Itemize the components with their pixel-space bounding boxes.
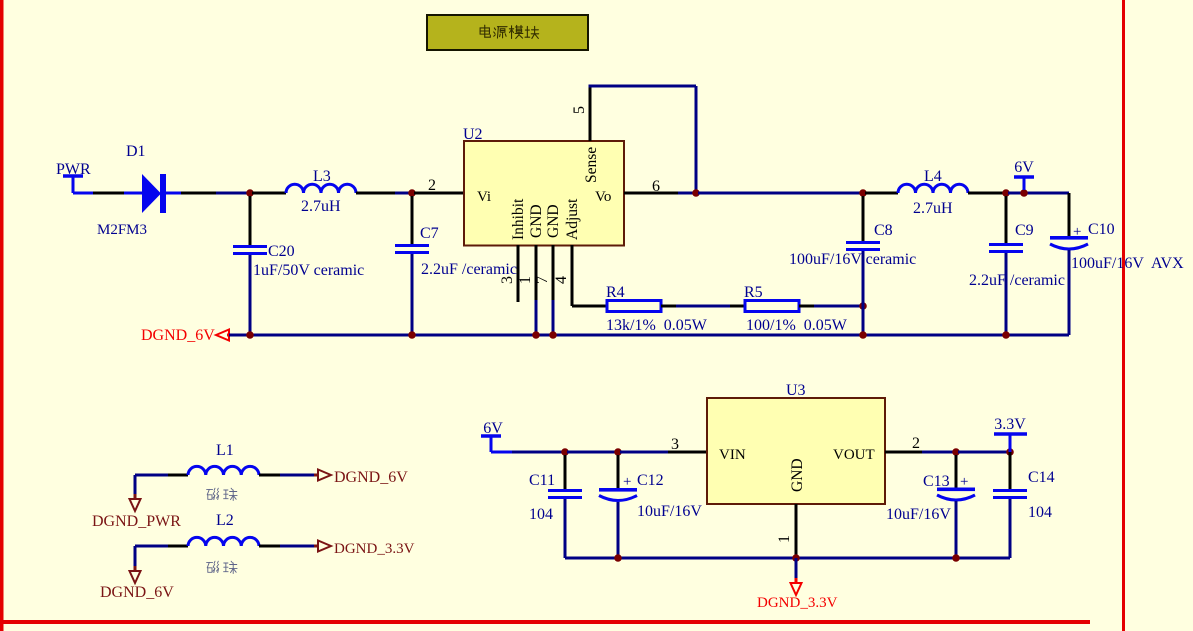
capacitor C10 polarized <box>1068 193 1071 237</box>
svg-text:5: 5 <box>571 106 588 114</box>
wire 6V to U3 VIN pin 3 <box>491 451 512 454</box>
svg-text:C10: C10 <box>1088 221 1115 238</box>
junction C13 gnd <box>952 554 960 562</box>
capacitor C13 polarized <box>955 455 958 488</box>
L2 value 磁珠 <box>207 561 219 572</box>
sheet border left red stripe <box>0 0 4 631</box>
inductor L4 <box>898 184 968 193</box>
power symbol DGND_6V bottom left <box>130 571 141 583</box>
sheet border bottom red line <box>0 620 1090 624</box>
wire L1 to DGND_PWR <box>134 475 137 494</box>
svg-text:6V: 6V <box>1014 159 1034 176</box>
svg-text:D1: D1 <box>126 143 146 160</box>
op-amp U2 regulator body <box>464 141 624 246</box>
svg-text:2.2uF /ceramic: 2.2uF /ceramic <box>421 261 517 278</box>
svg-text:Vo: Vo <box>595 189 611 205</box>
svg-text:6V: 6V <box>483 420 503 437</box>
wire L2 to DGND_6V <box>134 546 137 566</box>
junction C8 gnd <box>859 331 867 339</box>
node E junction <box>859 302 867 310</box>
svg-text:DGND_3.3V: DGND_3.3V <box>757 595 838 611</box>
svg-text:+: + <box>960 474 968 490</box>
svg-text:Sense: Sense <box>583 147 600 183</box>
U2 Vo pin 6 wire <box>624 192 678 195</box>
capacitor C20 <box>249 196 252 245</box>
wire node D to L4 <box>865 192 898 195</box>
port 6V for U3 <box>481 434 501 438</box>
svg-text:DGND_PWR: DGND_PWR <box>92 513 181 530</box>
capacitor C11 <box>564 455 567 489</box>
resistor R4 <box>607 301 661 312</box>
svg-text:R4: R4 <box>606 284 625 301</box>
power symbol DGND_PWR <box>130 499 141 511</box>
power symbol DGND_3.3V right of L2 <box>318 541 331 552</box>
svg-text:L2: L2 <box>216 512 234 529</box>
svg-text:L3: L3 <box>313 168 331 185</box>
svg-text:DGND_6V: DGND_6V <box>141 327 215 344</box>
power symbol DGND_6V right of L1 <box>318 470 331 481</box>
port PWR <box>63 174 83 178</box>
U2 pin 7 GND wire <box>552 245 555 300</box>
U3 VOUT pin 2 wire <box>885 451 922 454</box>
svg-text:C14: C14 <box>1028 469 1055 486</box>
svg-text:U2: U2 <box>463 126 483 143</box>
U3 ground rail wire <box>565 557 1010 560</box>
svg-text:DGND_6V: DGND_6V <box>334 469 408 486</box>
U3 GND pin 1 wire <box>795 504 798 558</box>
node K junction 3.3V/C14 <box>1006 448 1014 456</box>
wire R5 to node E <box>799 305 814 308</box>
svg-text:L4: L4 <box>924 168 942 185</box>
capacitor C14 <box>1009 452 1012 489</box>
svg-text:C9: C9 <box>1015 222 1034 239</box>
node F junction C9 <box>1002 189 1010 197</box>
svg-text:100uF/16V AVX: 100uF/16V AVX <box>1071 255 1184 272</box>
U2 pin 1 GND wire <box>535 245 538 300</box>
junction U3 gnd <box>792 554 800 562</box>
svg-text:4: 4 <box>553 276 570 284</box>
junction U2 gnd7 <box>549 331 557 339</box>
wire PWR to D1 <box>73 192 93 195</box>
svg-text:104: 104 <box>1028 504 1052 521</box>
node G junction 6V <box>1020 189 1028 197</box>
svg-text:100/1% 0.05W: 100/1% 0.05W <box>746 317 848 334</box>
svg-text:+: + <box>623 474 631 490</box>
svg-text:2: 2 <box>428 177 436 194</box>
svg-text:VOUT: VOUT <box>833 447 875 463</box>
svg-text:C8: C8 <box>874 222 893 239</box>
svg-text:104: 104 <box>529 506 553 523</box>
svg-text:7: 7 <box>534 276 551 284</box>
svg-text:Adjust: Adjust <box>564 198 581 240</box>
svg-text:10uF/16V: 10uF/16V <box>637 503 702 520</box>
svg-text:13k/1% 0.05W: 13k/1% 0.05W <box>606 317 708 334</box>
svg-text:DGND_3.3V: DGND_3.3V <box>334 541 415 557</box>
svg-text:U3: U3 <box>786 382 806 399</box>
wire L4 to node F <box>968 192 1004 195</box>
capacitor C12 polarized <box>617 455 620 488</box>
power symbol DGND_3.3V bottom <box>795 558 798 578</box>
svg-text:GND: GND <box>789 458 806 492</box>
inductor L3 <box>286 184 356 193</box>
svg-text:+: + <box>1073 224 1081 240</box>
L1 value 磁珠 <box>207 488 219 499</box>
svg-text:C11: C11 <box>529 472 555 489</box>
svg-text:GND: GND <box>545 204 562 238</box>
sheet border right red line <box>1122 0 1125 631</box>
ground net DGND_6V top left <box>216 330 229 341</box>
svg-text:L1: L1 <box>216 442 234 459</box>
capacitor C9 <box>1005 196 1008 243</box>
svg-text:1uF/50V ceramic: 1uF/50V ceramic <box>253 262 364 279</box>
inductor L1 ferrite bead <box>135 474 168 477</box>
svg-text:1: 1 <box>776 535 793 543</box>
svg-text:C13: C13 <box>923 473 950 490</box>
wire R4 to R5 <box>661 305 676 308</box>
resistor R5 <box>745 301 799 312</box>
svg-text:100uF/16V ceramic: 100uF/16V ceramic <box>789 251 916 268</box>
svg-text:PWR: PWR <box>56 161 91 178</box>
inductor L2 ferrite bead <box>135 545 168 548</box>
wire node C to node D <box>698 192 861 195</box>
capacitor C7 <box>411 196 414 244</box>
svg-text:Inhibit: Inhibit <box>510 198 527 240</box>
junction C9 gnd <box>1002 331 1010 339</box>
node H junction C11 <box>561 448 569 456</box>
junction C20 gnd <box>246 331 254 339</box>
wire D1 to node A <box>166 192 181 195</box>
svg-text:2.7uH: 2.7uH <box>301 198 341 215</box>
op-amp U3 regulator body <box>707 398 885 504</box>
capacitor C8 <box>862 196 865 241</box>
svg-text:3: 3 <box>499 276 516 284</box>
junction U2 gnd1 <box>532 331 540 339</box>
svg-text:C12: C12 <box>637 472 664 489</box>
svg-text:M2FM3: M2FM3 <box>97 222 147 238</box>
U2 pin 5 Sense loop wire <box>589 86 592 141</box>
node J junction C13 <box>952 448 960 456</box>
diode D1 <box>142 174 161 213</box>
port 6V top <box>1014 175 1034 179</box>
U2 pin 4 Adjust wire <box>571 245 574 306</box>
svg-text:R5: R5 <box>744 284 763 301</box>
node A junction <box>246 189 254 197</box>
wire node A to L3 <box>252 192 286 195</box>
U2 pin 3 Inhibit stub <box>517 245 520 302</box>
svg-text:C20: C20 <box>268 243 295 260</box>
svg-text:3.3V: 3.3V <box>994 416 1026 433</box>
svg-text:C7: C7 <box>420 225 439 242</box>
port 3.3V <box>994 432 1027 436</box>
ground rail wire <box>229 334 1069 337</box>
junction C7 gnd <box>408 331 416 339</box>
node D junction C8 <box>859 189 867 197</box>
svg-text:DGND_6V: DGND_6V <box>100 584 174 601</box>
svg-text:2: 2 <box>912 435 920 452</box>
svg-text:1: 1 <box>517 276 534 284</box>
wire node B to U2 Vi pin 2 <box>414 192 464 195</box>
svg-text:VIN: VIN <box>719 447 746 463</box>
svg-text:6: 6 <box>652 178 660 195</box>
node C junction Vo/Sense <box>692 189 700 197</box>
svg-text:3: 3 <box>671 436 679 453</box>
svg-text:Vi: Vi <box>477 189 491 205</box>
title block 电源模块 <box>427 15 588 50</box>
node I junction C12 <box>614 448 622 456</box>
svg-text:GND: GND <box>528 204 545 238</box>
svg-text:2.2uF /ceramic: 2.2uF /ceramic <box>969 272 1065 289</box>
svg-text:2.7uH: 2.7uH <box>913 200 953 217</box>
wire node F to node G <box>1008 192 1069 195</box>
junction C12 gnd <box>614 554 622 562</box>
node B junction <box>408 189 416 197</box>
svg-text:10uF/16V: 10uF/16V <box>886 506 951 523</box>
wire L3 to node B <box>356 192 395 195</box>
